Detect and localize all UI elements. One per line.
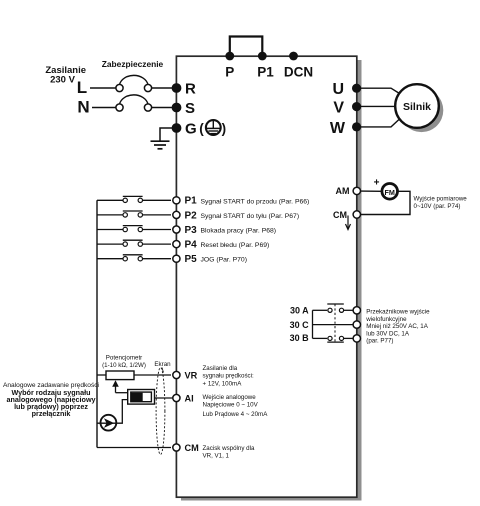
svg-text:Wejście analogowe: Wejście analogowe: [203, 394, 257, 401]
terminal 30A: [353, 307, 360, 314]
svg-text:V: V: [333, 100, 344, 117]
terminal R: [172, 81, 196, 98]
svg-text:P3: P3: [185, 225, 198, 236]
terminal P2 (input): [173, 210, 299, 221]
digital input common rail: [96, 200, 98, 447]
line L: [77, 78, 87, 97]
label Potencjometr: [102, 355, 146, 370]
wire pot left to rail: [97, 374, 106, 376]
selector switch box: [128, 390, 155, 405]
svg-text:P5: P5: [185, 254, 198, 265]
svg-text:W: W: [330, 120, 346, 137]
svg-text:AM: AM: [336, 186, 350, 196]
jumper between P and P1: [230, 37, 262, 57]
terminal P5 (input): [173, 254, 247, 265]
svg-text:30 C: 30 C: [290, 320, 310, 330]
svg-text:N: N: [77, 98, 89, 117]
inverter main box: [176, 56, 356, 497]
svg-text:Zasilanie dla: Zasilanie dla: [203, 365, 238, 372]
terminal P3 (input): [173, 225, 276, 236]
terminal DCN: [284, 52, 313, 80]
svg-text:(: (: [199, 121, 204, 136]
svg-text:P4: P4: [185, 240, 198, 251]
svg-text:Zacisk wspólny dla: Zacisk wspólny dla: [203, 445, 255, 452]
svg-text:): ): [222, 121, 227, 136]
svg-text:Zabezpieczenie: Zabezpieczenie: [102, 59, 164, 69]
terminal S: [172, 100, 195, 117]
meter FM: [374, 178, 398, 200]
svg-text:FM: FM: [385, 188, 395, 197]
relay wiring bracket: [313, 310, 353, 338]
wire through current source to switch box: [97, 400, 128, 424]
svg-text:Potencjometr: Potencjometr: [106, 355, 142, 362]
svg-text:R: R: [185, 81, 196, 98]
svg-text:CM: CM: [333, 210, 347, 220]
wire wiper to switch box: [116, 392, 128, 394]
label Zabezpieczenie: [102, 59, 164, 69]
ground: [151, 141, 170, 149]
wire rail bottom to CM: [97, 447, 171, 449]
wire W to motor: [360, 119, 400, 127]
svg-text:lub 30V DC, 1A: lub 30V DC, 1A: [366, 330, 410, 337]
wire fuse to S: [152, 107, 172, 109]
svg-text:Silnik: Silnik: [403, 101, 431, 113]
label relay output: [365, 309, 430, 345]
terminal CM (left): [173, 443, 199, 453]
svg-text:Ekran: Ekran: [154, 361, 171, 368]
svg-text:DCN: DCN: [284, 65, 313, 80]
switch SW2 (P2): [97, 211, 171, 217]
svg-text:AI: AI: [185, 394, 194, 404]
terminal AI: [173, 394, 194, 404]
relay mechanical link (dashed): [334, 304, 336, 342]
potentiometer wiper arrow: [112, 380, 119, 393]
wire G to ground: [160, 128, 172, 141]
terminal 30B: [353, 335, 360, 342]
terminal G: [172, 121, 197, 138]
svg-text:G: G: [185, 121, 197, 138]
terminal P1: [257, 52, 274, 80]
wire AM to FM meter: [360, 190, 382, 192]
svg-text:CM: CM: [185, 443, 200, 453]
svg-text:Blokada pracy (Par. P68): Blokada pracy (Par. P68): [201, 228, 277, 235]
line N: [77, 98, 89, 117]
relay contact labels 30A 30C 30B: [290, 306, 310, 344]
svg-text:L: L: [77, 78, 87, 97]
label Zasilanie 230 V: [45, 65, 86, 86]
svg-text:Lub Prądowe 4 ~ 20mA: Lub Prądowe 4 ~ 20mA: [203, 411, 269, 418]
wire N to fuse: [92, 107, 116, 109]
svg-text:U: U: [332, 81, 344, 98]
fuse F1 (L phase): [116, 75, 152, 91]
terminal CM (analog common, right): [333, 210, 360, 220]
svg-text:230 V: 230 V: [50, 75, 75, 86]
svg-text:P1: P1: [257, 65, 274, 80]
terminal AM: [336, 186, 361, 196]
svg-text:P1: P1: [185, 196, 198, 207]
svg-text:JOG (Par. P70): JOG (Par. P70): [201, 257, 247, 264]
label VR supply: [203, 365, 255, 387]
svg-text:(1-10 kΩ, 1/2W): (1-10 kΩ, 1/2W): [102, 362, 146, 369]
wire U to motor: [360, 88, 400, 93]
label Ekran: [154, 361, 171, 373]
switch SW1 (P1): [97, 196, 171, 202]
terminal P1 (input): [173, 196, 310, 207]
svg-text:P: P: [225, 65, 234, 80]
protective earth symbol in circle: [199, 120, 226, 136]
wire pot to VR: [134, 374, 171, 376]
motor Silnik: [395, 84, 439, 128]
svg-text:30 A: 30 A: [290, 306, 309, 316]
relay contact 30A (NC): [327, 304, 353, 312]
svg-text:30 B: 30 B: [290, 333, 310, 343]
terminal 30C: [353, 321, 360, 328]
motor Silnik shadow: [400, 89, 444, 133]
svg-text:+ 12V, 100mA: + 12V, 100mA: [203, 380, 243, 387]
svg-text:Mniej niż 250V AC, 1A: Mniej niż 250V AC, 1A: [366, 323, 428, 330]
arrow below CM: [346, 216, 351, 230]
svg-text:Napięciowe 0 ~ 10V: Napięciowe 0 ~ 10V: [203, 402, 259, 409]
svg-text:Reset błedu (Par. P69): Reset błedu (Par. P69): [201, 242, 270, 249]
wire FM to CM return: [361, 191, 411, 214]
svg-text:(par. P77): (par. P77): [366, 338, 393, 345]
potentiometer: [106, 371, 134, 380]
shield ellipse (Ekran, dashed): [156, 368, 165, 455]
switch SW5 (P5): [97, 255, 171, 261]
label Wyjscie pomiarowe: [414, 196, 468, 211]
switch SW3 (P3): [97, 226, 171, 232]
svg-text:S: S: [185, 100, 195, 117]
svg-text:wielofunkcyjne: wielofunkcyjne: [365, 316, 407, 323]
svg-text:+: +: [374, 178, 380, 189]
terminal U: [332, 81, 361, 98]
switch SW4 (P4): [97, 240, 171, 246]
wire V to motor: [360, 105, 395, 107]
svg-text:Przekaźnikowe wyjście: Przekaźnikowe wyjście: [366, 309, 430, 316]
label analog speed setting: [3, 382, 100, 418]
wire L to fuse: [90, 87, 116, 89]
wire fuse to R: [152, 87, 172, 89]
svg-text:P2: P2: [185, 210, 198, 221]
svg-text:Wyjście pomiarowe: Wyjście pomiarowe: [414, 196, 468, 203]
terminal V: [333, 100, 361, 117]
label AI input: [203, 394, 269, 418]
svg-text:0~10V (par. P74): 0~10V (par. P74): [414, 203, 461, 210]
svg-text:VR, V1, 1: VR, V1, 1: [203, 453, 230, 460]
relay contact 30B (NO): [327, 336, 353, 342]
terminal W: [330, 120, 361, 137]
terminal VR: [173, 371, 198, 381]
fuse F2 (N phase): [116, 95, 152, 111]
svg-text:Sygnał START do tyłu (Par. P67: Sygnał START do tyłu (Par. P67): [201, 213, 300, 220]
svg-text:Sygnał START do przodu (Par. P: Sygnał START do przodu (Par. P66): [201, 198, 310, 205]
label CM common: [203, 445, 255, 460]
svg-text:przełącznik: przełącznik: [32, 409, 71, 418]
current source: [101, 415, 117, 431]
terminal P: [225, 52, 234, 80]
wire switch box to AI: [155, 397, 173, 399]
svg-text:sygnału prędkości:: sygnału prędkości:: [203, 373, 255, 380]
svg-text:VR: VR: [185, 371, 198, 381]
terminal P4 (input): [173, 240, 269, 251]
inverter box shadow: [181, 60, 362, 501]
